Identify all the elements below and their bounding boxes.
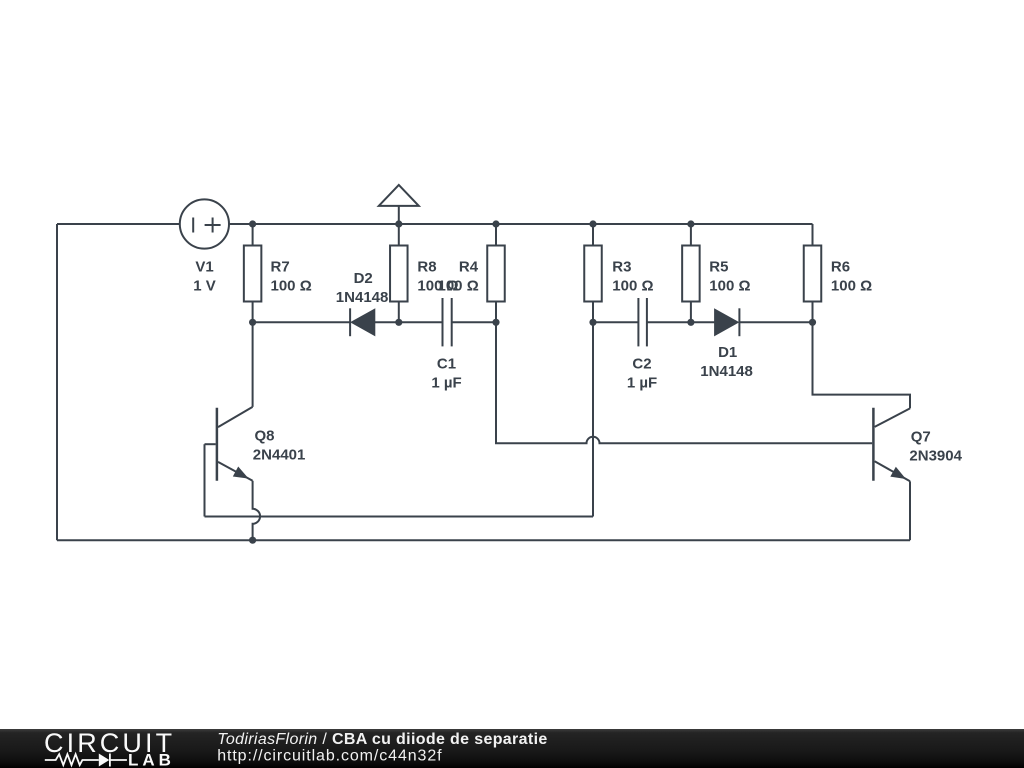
label R5 <box>709 258 750 294</box>
label D1 <box>700 344 753 380</box>
junction mid R7 <box>249 319 256 326</box>
svg-text:R3: R3 <box>612 258 631 275</box>
wire R6 to Q7 collector <box>813 322 911 408</box>
wire C1 to R4 <box>452 321 496 323</box>
wire R3 to C2 <box>593 321 638 323</box>
capacitor C2 <box>638 298 647 346</box>
svg-text:D2: D2 <box>354 270 373 287</box>
footer bar <box>0 729 1024 768</box>
svg-text:1 V: 1 V <box>193 277 216 294</box>
wire C2 to D1 <box>647 321 715 323</box>
svg-text:100 Ω: 100 Ω <box>709 277 750 294</box>
transistor Q8 <box>205 407 261 540</box>
logo resistor-diode glyph <box>45 754 127 767</box>
wire D2 to C1 <box>374 321 442 323</box>
junction mid R3 <box>589 319 596 326</box>
svg-text:Q7: Q7 <box>911 429 931 446</box>
junction top R7 <box>249 220 256 227</box>
svg-text:100 Ω: 100 Ω <box>831 277 872 294</box>
svg-text:C1: C1 <box>437 356 456 373</box>
label R6 <box>831 258 872 294</box>
svg-text:100 Ω: 100 Ω <box>271 277 312 294</box>
junction mid R4 <box>492 319 499 326</box>
power flag VCC triangle <box>379 185 419 246</box>
resistor R5 <box>682 224 700 322</box>
diode D1 <box>715 308 739 336</box>
resistor R3 <box>584 224 602 322</box>
svg-text:2N4401: 2N4401 <box>253 446 306 463</box>
junction top R8 <box>395 220 402 227</box>
svg-text:100 Ω: 100 Ω <box>612 277 653 294</box>
svg-text:1 µF: 1 µF <box>431 375 461 392</box>
svg-text:Q8: Q8 <box>255 427 275 444</box>
junction bottom Q8 emitter <box>249 537 256 544</box>
capacitor C1 <box>443 298 452 346</box>
wire lower link to Q8 base <box>205 516 594 518</box>
svg-text:R7: R7 <box>271 258 290 275</box>
junction mid R6 <box>809 319 816 326</box>
junction top R5 <box>687 220 694 227</box>
svg-text:100 Ω: 100 Ω <box>438 277 479 294</box>
svg-text:R8: R8 <box>417 258 436 275</box>
junction mid R5 <box>687 319 694 326</box>
label R4 <box>438 258 479 294</box>
label D2 <box>336 270 389 306</box>
wire bottom rail <box>57 539 910 541</box>
wire top rail right of V1 <box>229 223 813 225</box>
svg-text:R5: R5 <box>709 258 728 275</box>
label C1 <box>431 356 461 392</box>
svg-text:R4: R4 <box>459 258 479 275</box>
svg-text:C2: C2 <box>632 356 651 373</box>
svg-text:D1: D1 <box>718 344 737 361</box>
resistor R6 <box>804 224 822 322</box>
diode D2 <box>350 308 374 336</box>
transistor Q7 <box>873 408 910 541</box>
svg-text:2N3904: 2N3904 <box>909 448 962 465</box>
wire D1 to R6 <box>739 321 812 323</box>
junction top R3 <box>589 220 596 227</box>
svg-text:V1: V1 <box>195 258 213 275</box>
svg-text:LAB: LAB <box>128 751 175 768</box>
wire R4 to Q7 base with hop over node <box>496 322 872 443</box>
label R8 <box>417 258 458 294</box>
junction top R4 <box>492 220 499 227</box>
label Q8 <box>253 427 306 463</box>
wire top rail left of V1 <box>57 223 180 225</box>
svg-text:1N4148: 1N4148 <box>336 289 389 306</box>
svg-text:1 µF: 1 µF <box>627 375 657 392</box>
current source V1 <box>180 199 229 248</box>
junction mid R8 <box>395 319 402 326</box>
wire mid rail R7 to D2 <box>253 321 351 323</box>
label R3 <box>612 258 653 294</box>
svg-text:R6: R6 <box>831 258 850 275</box>
svg-text:http://circuitlab.com/c44n32f: http://circuitlab.com/c44n32f <box>217 748 442 765</box>
label V1 <box>193 258 216 294</box>
resistor R4 <box>487 224 505 322</box>
svg-text:1N4148: 1N4148 <box>700 363 753 380</box>
wire left edge <box>56 224 58 540</box>
label C2 <box>627 356 657 392</box>
label Q7 <box>909 429 962 465</box>
label R7 <box>271 258 312 294</box>
svg-text:TodiriasFlorin / CBA cu diiode: TodiriasFlorin / CBA cu diiode de separa… <box>217 731 547 748</box>
resistor R7 <box>244 224 262 322</box>
wire Q8 collector drop <box>252 322 254 407</box>
resistor R8 <box>390 246 408 323</box>
wire R3 drop to lower link <box>592 322 594 516</box>
